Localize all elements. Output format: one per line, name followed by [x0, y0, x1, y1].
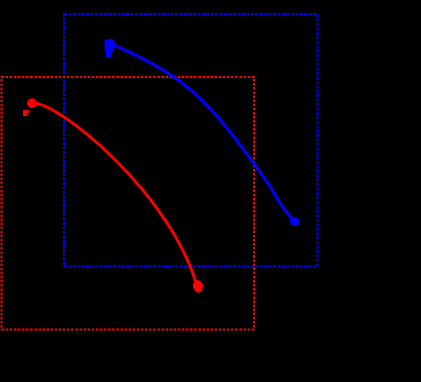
blue dotted rectangle — [64, 14, 317, 267]
red tiny glyph — [23, 110, 29, 116]
blue curve — [105, 41, 295, 221]
red arrowhead — [193, 280, 204, 293]
blue start dot — [290, 217, 299, 226]
blue arrowhead — [105, 39, 115, 58]
red start dot — [27, 98, 37, 108]
red dotted rectangle — [2, 77, 254, 329]
red curve — [32, 103, 199, 293]
